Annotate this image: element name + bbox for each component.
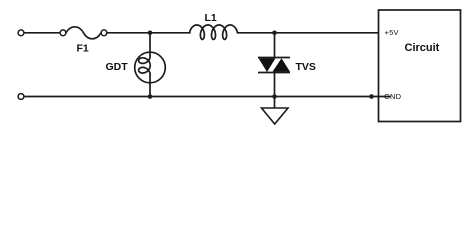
- node dot TVS bottom: [272, 94, 277, 99]
- terminal top-left: [18, 30, 24, 36]
- TVS right triangle: [273, 58, 291, 72]
- TVS top bar: [258, 57, 290, 59]
- svg-text:F1: F1: [77, 43, 89, 55]
- GDT internal spiral: [139, 56, 151, 75]
- wire TVS bottom: [274, 73, 276, 97]
- wire top rail left: [24, 32, 60, 34]
- svg-text:TVS: TVS: [296, 61, 316, 73]
- wire fuse to GDT node to L1: [107, 32, 190, 34]
- svg-text:L1: L1: [205, 12, 217, 24]
- svg-text:Circuit: Circuit: [405, 42, 440, 54]
- wire ground stub: [274, 97, 276, 109]
- ground: [262, 108, 289, 124]
- wire bottom rail: [24, 96, 378, 98]
- wire GDT bottom: [149, 75, 151, 96]
- TVS left triangle: [259, 58, 276, 72]
- circuit box U1: [379, 10, 461, 122]
- svg-text:GDT: GDT: [106, 61, 129, 73]
- inductor L1 coil: [190, 25, 238, 39]
- fuse F1 wave: [66, 27, 101, 39]
- GDT circle: [135, 52, 166, 83]
- wire TVS top: [274, 33, 276, 58]
- fuse F1 right circle: [101, 30, 107, 36]
- svg-text:+5V: +5V: [385, 28, 399, 37]
- TVS bottom bar: [258, 72, 290, 74]
- node dot GND pin: [369, 94, 374, 99]
- node dot TVS top: [272, 31, 277, 36]
- fuse F1 left circle: [60, 30, 66, 36]
- node dot GDT bottom: [148, 94, 153, 99]
- wire GDT top: [149, 33, 151, 56]
- wire L1 to circuit box: [238, 32, 379, 34]
- terminal bottom-left: [18, 94, 24, 100]
- node dot GDT top: [148, 31, 153, 36]
- svg-text:GND: GND: [384, 92, 402, 101]
- wire GND stub inside box: [378, 96, 390, 98]
